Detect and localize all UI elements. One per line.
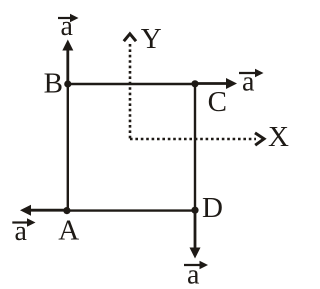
- label vector a at B (glyph with arrow overbar): [58, 11, 79, 42]
- svg-text:D: D: [202, 192, 223, 224]
- label vector a at D (glyph with arrow overbar): [184, 260, 208, 289]
- node B (vertex dot): [64, 80, 71, 87]
- wire square bottom edge A-D: [68, 209, 195, 211]
- node D (vertex dot): [191, 207, 198, 214]
- label vector a at C (glyph with arrow overbar): [239, 67, 264, 98]
- vector arrow at A (leftward): [20, 205, 67, 216]
- svg-text:X: X: [268, 121, 289, 153]
- svg-text:a: a: [15, 216, 28, 247]
- wire square top edge B-C: [68, 83, 195, 85]
- vector arrow at D (downward): [190, 211, 201, 259]
- node A (vertex dot): [63, 207, 70, 214]
- vector arrow at C (rightward): [195, 78, 237, 89]
- wire square left edge B-A: [67, 84, 69, 211]
- svg-text:A: A: [58, 214, 79, 246]
- Y axis (dotted, with open arrowhead): [124, 34, 136, 139]
- X axis (dotted, with open arrowhead): [130, 133, 264, 145]
- wire square right edge C-D: [194, 84, 196, 211]
- svg-text:a: a: [242, 67, 255, 98]
- svg-text:Y: Y: [141, 23, 162, 55]
- node C (vertex dot): [191, 80, 198, 87]
- vector arrow at B (upward): [62, 40, 73, 85]
- svg-text:C: C: [208, 86, 227, 118]
- svg-text:B: B: [44, 68, 63, 100]
- label vector a at A (glyph with arrow overbar): [12, 216, 35, 247]
